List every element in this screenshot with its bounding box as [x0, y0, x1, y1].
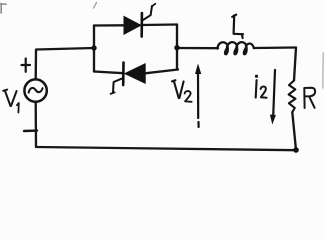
- thyristor T2 gate: [113, 78, 123, 93]
- wire source top vertical: [35, 50, 38, 80]
- voltage source V1 circle: [24, 79, 46, 101]
- wire left vertical of parallel branch: [93, 26, 95, 72]
- wire top left horizontal: [36, 48, 94, 50]
- wire top branch right segment: [142, 23, 177, 26]
- arrow i2 head: [270, 115, 276, 125]
- sine wave inside source: [29, 88, 43, 93]
- wire right vertical to resistor: [294, 48, 296, 81]
- resistor R zigzag: [289, 81, 296, 113]
- thyristor T2 cathode bar: [122, 63, 125, 86]
- wire bottom branch left segment: [94, 72, 123, 74]
- thyristor T2 (bottom, pointing left) triangle: [125, 64, 145, 83]
- wire right vertical of parallel branch: [176, 25, 178, 70]
- node junction left: [91, 45, 96, 50]
- wire top branch left segment: [94, 24, 124, 27]
- label R: [304, 88, 315, 108]
- inductor L coil: [217, 42, 253, 54]
- arrow i2 (down) shaft: [273, 70, 275, 116]
- wire bottom branch right segment: [145, 70, 178, 74]
- minus sign: [24, 129, 37, 132]
- arrow V2 (up) shaft: [197, 73, 199, 118]
- thyristor T1 (top, pointing right) triangle: [124, 17, 141, 35]
- thyristor T1 gate: [143, 6, 152, 20]
- wire source bottom vertical: [35, 102, 38, 147]
- label L: [232, 15, 243, 38]
- label i2: [255, 75, 267, 98]
- arrow V2 head: [195, 64, 201, 75]
- scan artifact top left: [1, 4, 7, 14]
- thyristor T1 gate tick: [152, 4, 156, 7]
- node junction right: [174, 45, 179, 50]
- wire inductor to right corner: [254, 46, 296, 49]
- scan artifact above top branch: [94, 3, 97, 9]
- label V2: [172, 80, 192, 102]
- arrow V2 dash: [197, 122, 199, 127]
- wire mid to inductor: [177, 47, 218, 50]
- wire bottom horizontal: [36, 147, 296, 150]
- node junction bottom right: [293, 147, 299, 153]
- plus sign: [22, 59, 31, 72]
- thyristor T2 gate tick: [111, 92, 115, 93]
- wire resistor to bottom node: [292, 112, 296, 150]
- scan artifact right edge: [322, 53, 324, 88]
- label V1: [3, 90, 19, 113]
- thyristor T1 cathode bar: [140, 13, 143, 37]
